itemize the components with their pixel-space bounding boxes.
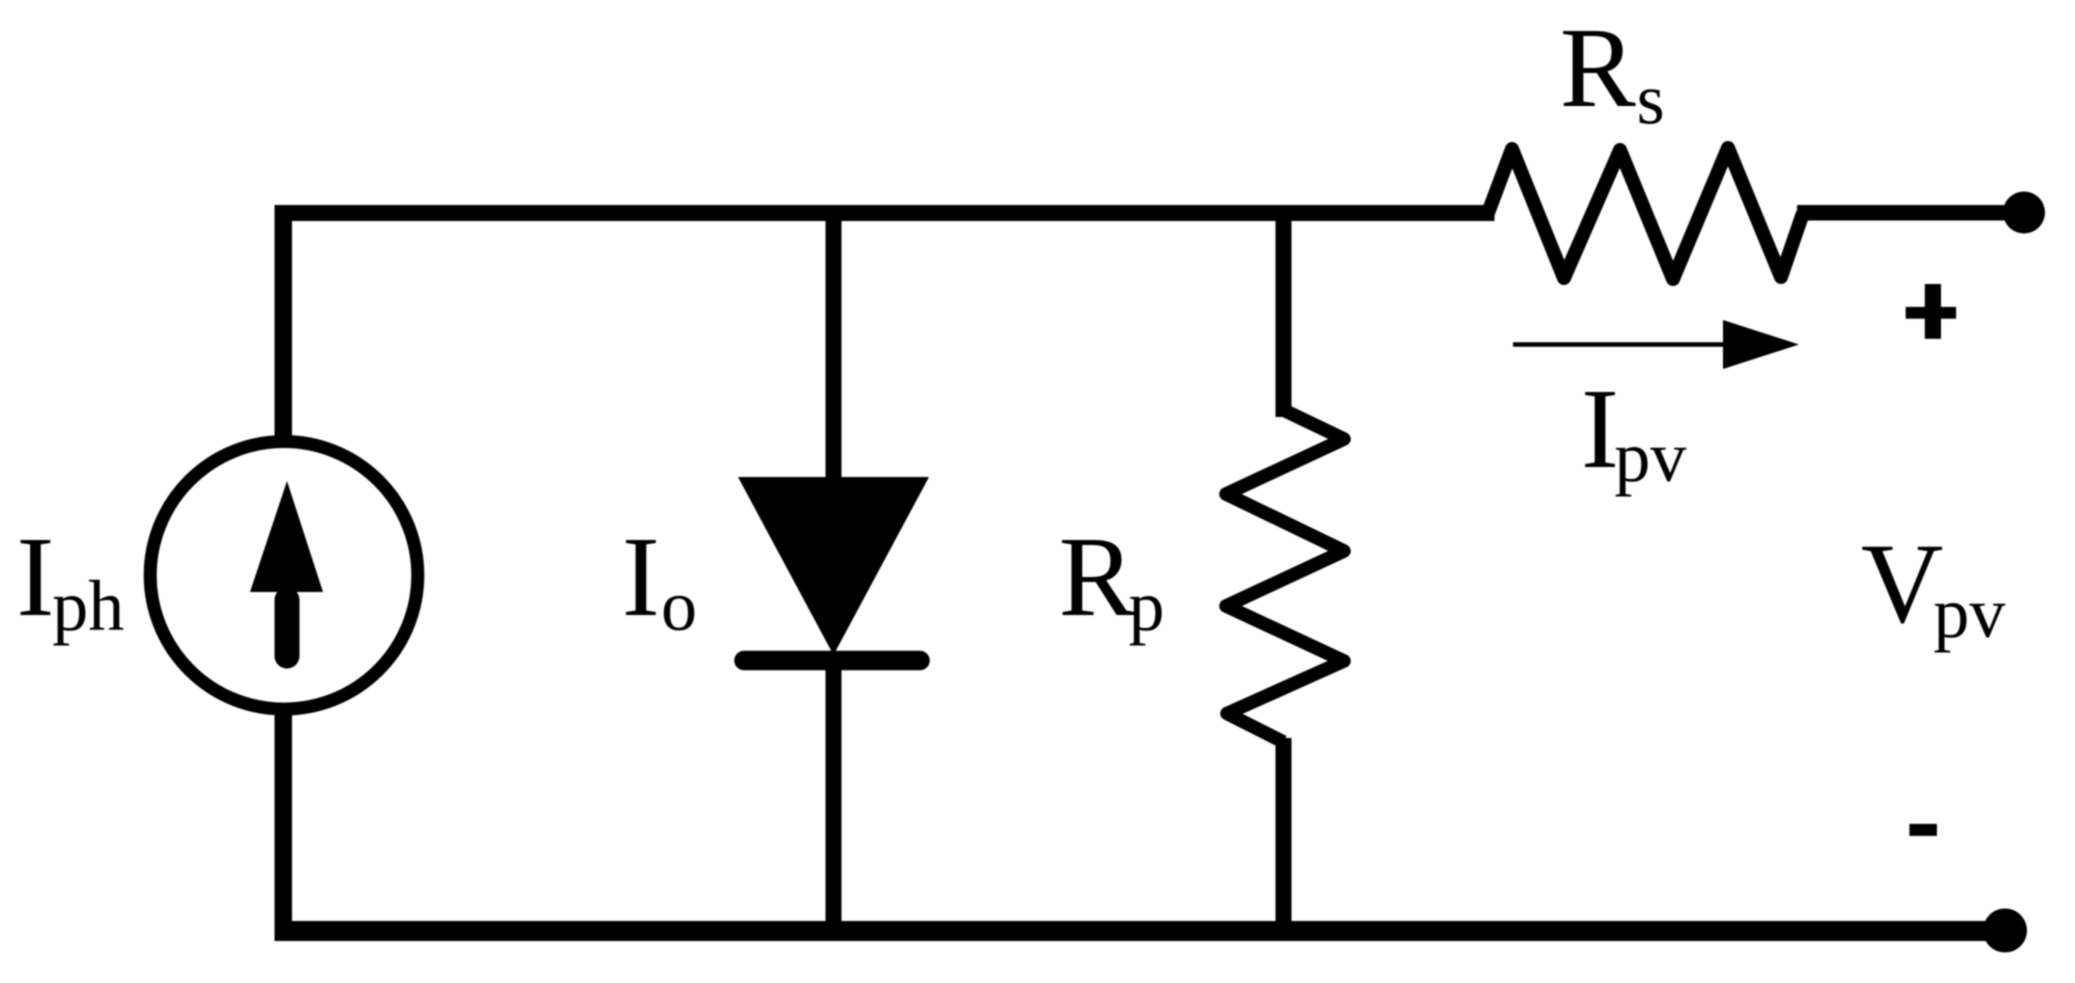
svg-text:R: R [1560,4,1636,131]
svg-text:p: p [1129,566,1165,646]
svg-text:o: o [661,566,697,646]
svg-text:s: s [1637,60,1665,140]
svg-text:pv: pv [1933,573,2005,653]
svg-text:V: V [1861,520,1943,647]
svg-text:I: I [1581,365,1619,492]
svg-text:R: R [1059,513,1135,640]
svg-text:I: I [622,513,660,640]
svg-text:I: I [16,513,54,640]
svg-text:pv: pv [1614,417,1686,497]
svg-text:ph: ph [52,566,124,646]
